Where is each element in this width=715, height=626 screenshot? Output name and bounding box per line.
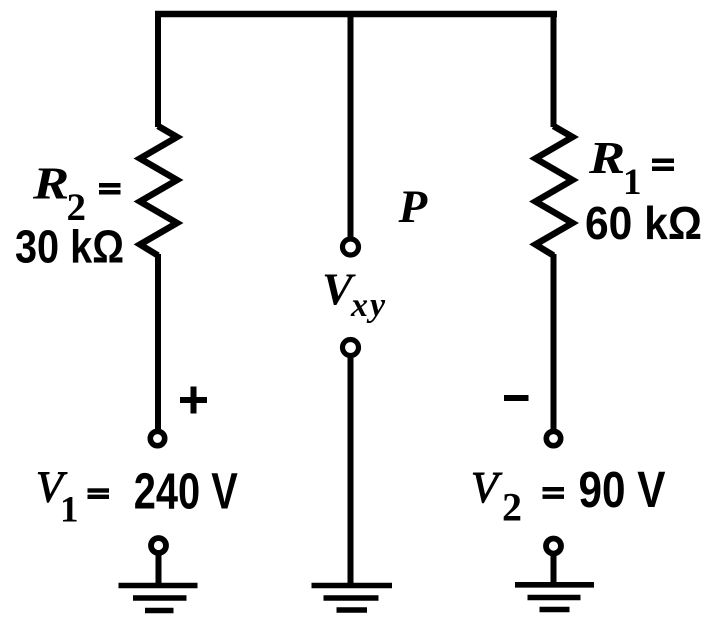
ground G1	[119, 538, 198, 611]
ground G3	[515, 539, 594, 610]
wire left branch upper	[155, 11, 161, 127]
node P	[343, 239, 359, 255]
svg-text:xy: xy	[350, 287, 387, 324]
label V1 value	[36, 463, 238, 531]
svg-text:P: P	[398, 181, 429, 233]
ground G2	[312, 586, 393, 611]
svg-text:240 V: 240 V	[134, 463, 238, 520]
svg-text:60 kΩ: 60 kΩ	[585, 197, 702, 249]
node terminal V2	[546, 431, 560, 445]
polarity minus	[504, 395, 529, 401]
svg-text:90 V: 90 V	[579, 461, 666, 518]
svg-text:R: R	[588, 132, 625, 183]
label V2 value	[471, 461, 666, 530]
node terminal V1	[150, 431, 164, 445]
wire right branch upper	[551, 11, 557, 127]
node x	[343, 340, 359, 356]
polarity plus	[180, 387, 207, 414]
wire top bus	[155, 11, 557, 18]
resistor R2	[140, 126, 177, 256]
wire left branch lower	[155, 254, 161, 429]
svg-text:1: 1	[60, 490, 79, 531]
svg-text:V: V	[471, 463, 503, 512]
svg-text:30 kΩ: 30 kΩ	[15, 221, 124, 273]
wire middle branch upper	[348, 11, 354, 238]
wire right branch lower	[551, 254, 557, 430]
svg-text:R: R	[32, 157, 69, 208]
svg-text:2: 2	[502, 485, 522, 530]
resistor R1	[536, 126, 573, 256]
label Vxy	[322, 264, 387, 325]
label R1 designator	[588, 132, 674, 203]
label R2 designator	[32, 157, 121, 229]
wire middle branch lower	[348, 357, 354, 586]
